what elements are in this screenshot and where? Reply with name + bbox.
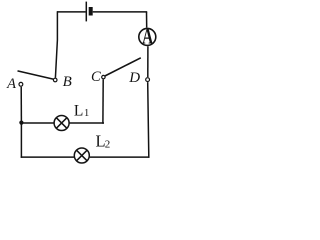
switch blade B (open, to near A) <box>18 71 54 79</box>
svg-text:L: L <box>74 103 83 120</box>
wire top-right horizontal <box>93 11 148 13</box>
svg-text:D: D <box>128 70 140 86</box>
wire from contact A down to junction <box>20 87 22 123</box>
wire junction down to bottom-left corner <box>20 123 22 158</box>
wire ammeter up to top-right corner <box>146 12 148 28</box>
svg-text:1: 1 <box>84 108 89 119</box>
svg-text:A: A <box>6 76 16 92</box>
svg-text:B: B <box>63 74 72 90</box>
wire top-left horizontal <box>57 11 86 13</box>
battery long plate (+) <box>85 2 87 22</box>
contact C <box>102 75 105 78</box>
wire bottom left horizontal <box>21 156 74 158</box>
lamp L2 <box>74 148 89 163</box>
contact A <box>19 82 23 86</box>
battery short thick plate (-) <box>89 7 93 16</box>
wire bottom right horizontal <box>90 156 150 158</box>
svg-text:A: A <box>142 25 153 49</box>
wire left vertical (battery to contact B) <box>55 11 57 78</box>
wire lamp L1 to riser <box>69 122 104 124</box>
wire riser up to contact C <box>102 79 104 124</box>
lamp L1 <box>54 116 69 131</box>
wire contact D up to ammeter <box>147 46 149 77</box>
ammeter A1 <box>139 25 156 49</box>
svg-text:2: 2 <box>105 139 111 151</box>
contact B <box>53 78 57 82</box>
switch blade C (open, toward D side) <box>105 58 141 76</box>
junction node <box>19 121 23 125</box>
contact D <box>146 78 150 82</box>
svg-text:C: C <box>91 69 101 85</box>
wire contact D down to bottom-right corner <box>148 82 149 158</box>
wire junction to lamp L1 <box>21 122 54 124</box>
